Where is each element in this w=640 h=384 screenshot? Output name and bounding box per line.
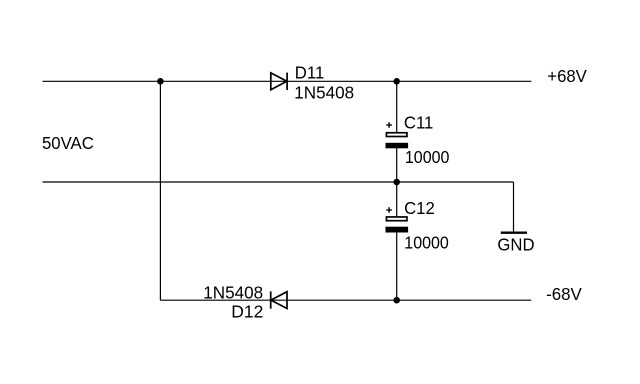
svg-text:1N5408: 1N5408: [294, 82, 354, 103]
wire: capacitor branch top rail to C11: [396, 81, 398, 132]
wire: C12 to bottom rail: [396, 232, 398, 300]
svg-text:10000: 10000: [404, 233, 448, 253]
node: junction bottom rail / C12 branch: [393, 297, 400, 304]
svg-text:50VAC: 50VAC: [42, 132, 94, 153]
node: junction top rail / left vertical: [157, 78, 164, 85]
wire: top rail +68V: [43, 80, 532, 82]
svg-text:10000: 10000: [405, 147, 449, 167]
wire: middle rail to ground: [513, 182, 515, 232]
svg-text:+68V: +68V: [547, 65, 587, 86]
svg-text:-68V: -68V: [546, 284, 582, 305]
svg-text:GND: GND: [497, 234, 534, 255]
svg-text:C11: C11: [404, 112, 433, 133]
wire: C11 to middle rail to C12: [396, 148, 398, 217]
wire: middle rail (AC common): [43, 181, 514, 183]
svg-text:C12: C12: [404, 198, 435, 219]
wire: left vertical from top rail to bottom rail: [159, 81, 161, 300]
svg-text:D11: D11: [295, 62, 324, 83]
node: junction top rail / C11 branch: [393, 78, 400, 85]
wire: bottom rail -68V: [160, 299, 531, 301]
ground: [501, 231, 527, 233]
svg-text:D12: D12: [231, 301, 263, 321]
capacitor C12: [386, 207, 409, 232]
capacitor C11: [386, 122, 409, 148]
diode D12: [271, 291, 287, 308]
svg-text:1N5408: 1N5408: [203, 282, 263, 303]
node: junction middle rail / capacitor branch: [393, 179, 400, 186]
diode D11: [271, 73, 287, 90]
